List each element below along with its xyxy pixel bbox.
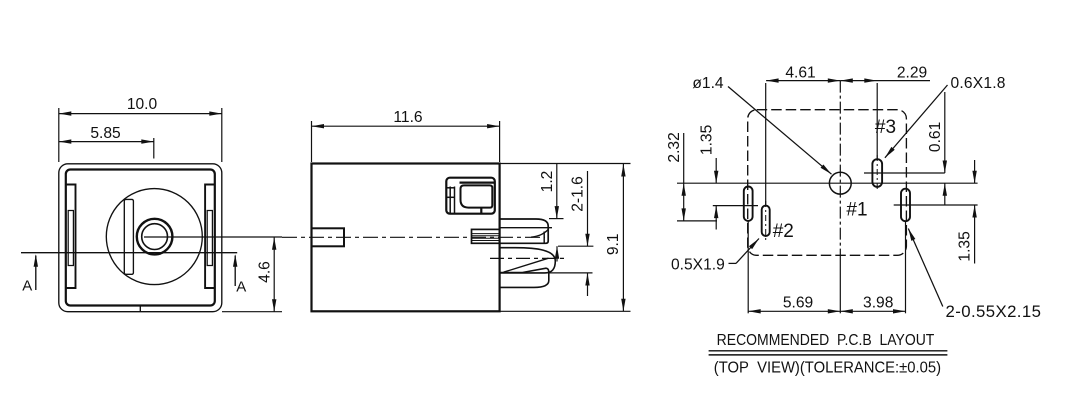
svg-text:A: A	[22, 278, 32, 295]
svg-text:5.85: 5.85	[90, 125, 121, 142]
svg-text:2-0.55X2.15: 2-0.55X2.15	[946, 302, 1042, 321]
dimension 5.85	[59, 141, 154, 143]
shield hole left 0.55X2.15	[744, 187, 753, 221]
dimension 10.0	[58, 108, 60, 162]
front view pin ring	[137, 219, 173, 255]
dimension 11.6	[311, 121, 313, 162]
svg-text:10.0: 10.0	[127, 96, 158, 113]
svg-text:0.5X1.9: 0.5X1.9	[671, 256, 725, 273]
svg-text:9.1: 9.1	[605, 233, 622, 255]
side view center pin knurl	[472, 229, 500, 243]
side view spring clip window	[461, 185, 493, 207]
front view large circle	[106, 189, 202, 285]
hole #1 horizontal centerline	[677, 182, 978, 184]
svg-text:1.35: 1.35	[957, 231, 974, 262]
side view body	[312, 164, 500, 312]
svg-text:A: A	[236, 279, 246, 296]
svg-text:ø1.4: ø1.4	[692, 75, 724, 92]
svg-text:0.6X1.8: 0.6X1.8	[951, 75, 1006, 92]
dimension 2.29	[840, 80, 930, 82]
side view middle terminal tongue	[500, 248, 556, 273]
svg-text:1.35: 1.35	[698, 124, 715, 155]
side view spring clip top edge	[460, 182, 495, 184]
front view left side slot	[66, 185, 76, 289]
svg-text:1.2: 1.2	[539, 171, 556, 193]
svg-text:2.32: 2.32	[666, 132, 683, 162]
dimension 9.1	[622, 164, 624, 311]
front view body	[66, 170, 215, 306]
horizontal centerline	[144, 236, 282, 238]
dimension 1.2	[549, 218, 564, 220]
pcb outline dashed	[748, 110, 907, 256]
shield hole right 0.55X2.15	[901, 189, 910, 222]
dimension 1.35 left	[713, 205, 758, 207]
svg-text:RECOMMENDED P.C.B LAYOUT: RECOMMENDED P.C.B LAYOUT	[717, 332, 935, 349]
front view right side slot	[205, 185, 215, 289]
side view bottom terminal tab	[500, 268, 549, 287]
dimension 2-1.6	[558, 245, 593, 247]
section arrow A left	[35, 256, 37, 291]
hole #1 circle	[829, 172, 851, 194]
svg-text:5.69: 5.69	[783, 294, 813, 311]
dimension 4.61	[766, 80, 840, 82]
section line A-A	[21, 252, 237, 254]
hole #2 0.5X1.9	[762, 206, 770, 236]
dimension 2.32	[677, 220, 717, 222]
dimension 4.6	[222, 311, 282, 313]
dimension 5.69	[748, 310, 840, 312]
front view pin inner circle	[142, 224, 168, 250]
section arrow A right	[234, 256, 236, 287]
svg-text:#2: #2	[773, 221, 794, 242]
leader 2-0.55X2.15	[908, 229, 943, 307]
front view outer shell	[59, 164, 222, 312]
front view left slot inner	[68, 211, 73, 266]
hole #3 0.6X1.8	[872, 159, 882, 187]
svg-text:4.61: 4.61	[785, 65, 815, 82]
svg-text:11.6: 11.6	[393, 109, 422, 126]
svg-text:2.29: 2.29	[897, 65, 927, 82]
svg-text:#1: #1	[846, 200, 867, 221]
pin bottom arrow	[556, 246, 558, 261]
hole #1 vertical centerline	[839, 81, 841, 258]
top edge extension line	[500, 163, 631, 165]
second pin centerline	[490, 257, 568, 259]
svg-text:(TOP VIEW)(TOLERANCE:±0.05): (TOP VIEW)(TOLERANCE:±0.05)	[714, 359, 941, 376]
front view contact chord	[124, 199, 133, 274]
side view spring clip outer	[446, 178, 495, 214]
side view left boss	[312, 228, 345, 246]
front view right slot inner	[207, 211, 212, 266]
front view bottom parting tick	[139, 306, 141, 312]
svg-text:2-1.6: 2-1.6	[569, 176, 586, 212]
svg-text:4.6: 4.6	[256, 261, 273, 283]
bottom edge extension line	[500, 310, 631, 312]
dimension 3.98	[840, 310, 905, 312]
side view top terminal pin	[500, 219, 549, 243]
svg-text:#3: #3	[875, 117, 896, 138]
side view spring clip left fold	[449, 187, 451, 214]
side view spring clip bottom tick	[480, 208, 482, 214]
svg-text:3.98: 3.98	[863, 294, 893, 311]
dimension 0.61	[944, 92, 946, 173]
svg-text:0.61: 0.61	[927, 122, 944, 152]
dimension 1.35 right	[974, 160, 976, 183]
